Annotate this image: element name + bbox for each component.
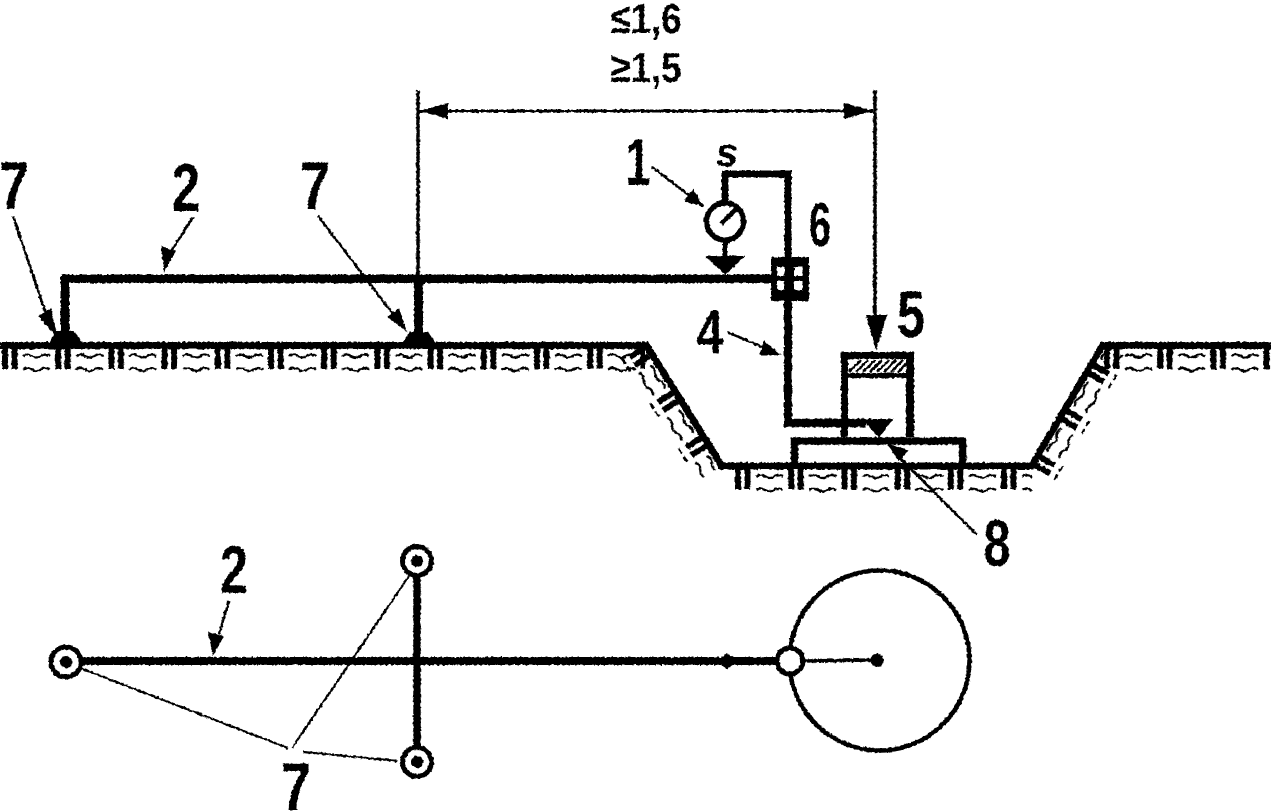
gauge down arrow xyxy=(723,240,728,258)
block 5 hatch strip bottom xyxy=(845,373,910,378)
left foot flare xyxy=(48,331,84,345)
wheel axle line xyxy=(803,660,872,661)
trench right slope xyxy=(1031,343,1104,467)
svg-text:5: 5 xyxy=(897,277,925,351)
rod 4 elbow horizontal xyxy=(784,419,866,428)
gauge circle 1 xyxy=(707,203,744,240)
mid foot flare xyxy=(400,332,438,346)
svg-text:7: 7 xyxy=(0,148,29,224)
block 5 left wall xyxy=(841,352,848,437)
rod 4 vertical xyxy=(784,301,792,419)
svg-text:2: 2 xyxy=(172,150,200,226)
paving band top-left xyxy=(2,349,645,374)
trench bottom xyxy=(718,463,1034,470)
leader 7 to left pivot xyxy=(80,668,288,748)
leader 7 mid xyxy=(318,216,396,318)
svg-text:8: 8 xyxy=(984,506,1011,580)
svg-text:≥1,5: ≥1,5 xyxy=(611,44,682,91)
wheel hub small circle xyxy=(777,648,803,674)
leader 2 top xyxy=(172,217,193,250)
trench left slope xyxy=(645,343,722,466)
diamond marker xyxy=(716,653,738,669)
gauge needle xyxy=(721,206,739,224)
leader 2 bottom xyxy=(219,601,229,634)
paving band left slope xyxy=(620,344,719,481)
block 5 right wall xyxy=(906,352,914,437)
plan pivot circle bottom xyxy=(403,748,432,777)
svg-text:s: s xyxy=(716,131,738,175)
sensor loop wire xyxy=(725,174,788,258)
svg-text:4: 4 xyxy=(697,298,724,367)
svg-text:6: 6 xyxy=(809,191,831,260)
svg-text:7: 7 xyxy=(281,749,311,811)
mid leg xyxy=(414,276,423,346)
dimension arrow right xyxy=(844,103,873,119)
extension line right with arrow to block 5 xyxy=(873,90,877,320)
ground line right xyxy=(1100,342,1271,349)
svg-text:1: 1 xyxy=(626,125,651,199)
paving band top-right xyxy=(1104,349,1271,374)
dimension arrow left xyxy=(419,103,448,119)
probe funnel xyxy=(862,419,893,438)
leader 4 xyxy=(727,332,767,349)
base plate outline xyxy=(795,441,963,466)
leader 7 to bottom pivot xyxy=(303,752,398,761)
leader 7 top-left xyxy=(13,216,48,320)
dimension line xyxy=(419,110,873,113)
leader 8 xyxy=(893,451,977,535)
wheel center dot xyxy=(871,654,884,667)
paving band trench bottom xyxy=(735,470,1032,495)
block 5 top edge xyxy=(841,352,914,359)
leader 7 to top pivot xyxy=(292,576,409,748)
wheel big circle xyxy=(790,571,970,751)
ground line left xyxy=(0,342,648,349)
svg-text:7: 7 xyxy=(300,148,330,224)
block 5 hatch xyxy=(849,360,906,372)
plan pivot circle left xyxy=(51,647,81,677)
svg-text:2: 2 xyxy=(220,532,248,608)
paving band right slope xyxy=(1033,345,1128,482)
plan pivot circle top xyxy=(403,547,432,576)
beam 2 xyxy=(62,274,772,283)
svg-text:≤1,6: ≤1,6 xyxy=(611,0,682,42)
extension line left xyxy=(416,90,420,276)
plan cross bar xyxy=(413,563,421,762)
leader 1 xyxy=(652,167,694,199)
plan beam 2 xyxy=(81,657,776,665)
left leg xyxy=(61,276,70,345)
connector block 6 xyxy=(771,257,809,301)
